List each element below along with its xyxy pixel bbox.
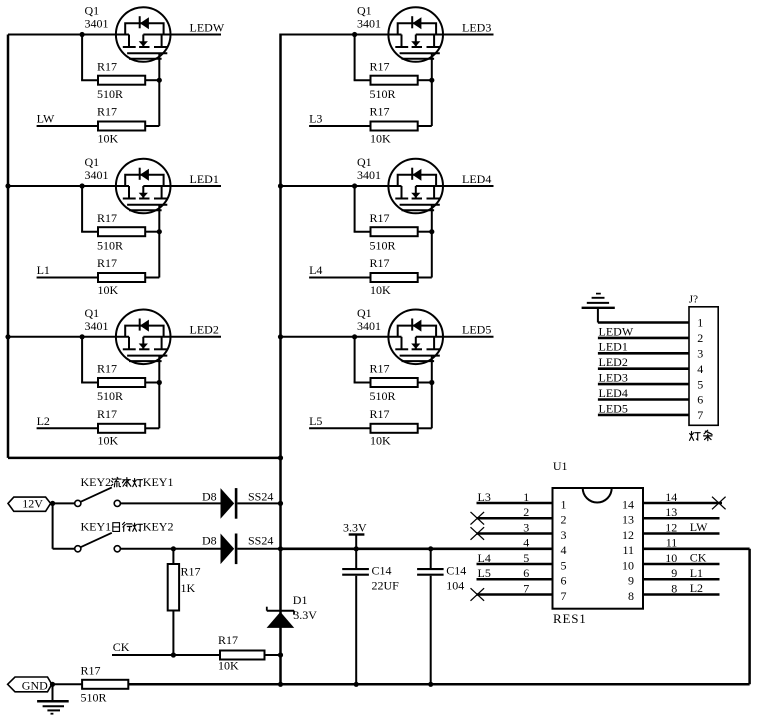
- svg-text:L5: L5: [309, 414, 322, 428]
- resistor R17 510R gate pull-up (LED2 block): [81, 337, 159, 403]
- transistor Q1 3401 P-MOSFET (LED4 block): [357, 155, 443, 213]
- svg-text:3401: 3401: [85, 17, 109, 31]
- svg-text:12: 12: [622, 528, 634, 542]
- svg-text:10: 10: [665, 551, 677, 565]
- net label LW: [37, 112, 55, 126]
- svg-text:13: 13: [665, 505, 677, 519]
- svg-text:LEDW: LEDW: [190, 20, 225, 34]
- wire switched row to U1 pin 4: [281, 547, 477, 550]
- svg-text:D8: D8: [202, 489, 217, 503]
- wire J pin 2: [598, 337, 689, 340]
- transistor Q1 3401 P-MOSFET (LED1 block): [85, 155, 171, 213]
- svg-text:R17: R17: [97, 105, 117, 119]
- svg-text:104: 104: [446, 579, 464, 593]
- svg-text:CK: CK: [113, 640, 130, 654]
- svg-text:6: 6: [697, 393, 703, 407]
- pin number 11 (outside): [666, 536, 678, 550]
- net label L4: [309, 263, 322, 277]
- pin number 8 (outside): [671, 581, 677, 595]
- svg-text:3401: 3401: [357, 168, 381, 182]
- node junction CK / R17 1K: [171, 652, 176, 657]
- svg-text:U1: U1: [553, 459, 568, 473]
- svg-text:6: 6: [561, 574, 567, 588]
- net label L1: [37, 263, 50, 277]
- svg-text:LED3: LED3: [462, 20, 491, 34]
- svg-text:L3: L3: [478, 490, 491, 504]
- switch KEY2 (流水灯 KEY1): [75, 475, 174, 507]
- svg-text:2: 2: [561, 513, 567, 527]
- pin number 4 (outside): [523, 536, 529, 550]
- ground symbol (bottom left): [37, 684, 69, 713]
- wire U1 pin 9 stub: [643, 578, 720, 581]
- svg-text:4: 4: [523, 536, 529, 550]
- pin number 7 (outside): [523, 581, 529, 595]
- wire drain of Q1 to net LED2: [143, 336, 221, 338]
- svg-text:L2: L2: [37, 414, 50, 428]
- pin number 9 (outside): [671, 566, 677, 580]
- svg-text:LED2: LED2: [599, 355, 628, 369]
- transistor Q1 3401 P-MOSFET (LED2 block): [85, 306, 171, 364]
- wire J pin 5: [598, 383, 689, 386]
- svg-text:510R: 510R: [97, 238, 123, 252]
- net label CK: [113, 640, 130, 654]
- svg-text:KEY1: KEY1: [81, 520, 112, 534]
- wire 12V drop to switch KEY1 row: [53, 503, 75, 548]
- wire gate lead of Q1 (LED1 block): [158, 205, 160, 278]
- resistor R17 510R gate pull-up (LED5 block): [354, 337, 432, 403]
- pin number 12 (outside): [665, 520, 677, 534]
- pin number 14 (outside): [665, 490, 677, 504]
- resistor R17 10K gate series (LED2 block): [97, 407, 159, 448]
- svg-text:LEDW: LEDW: [599, 324, 634, 338]
- wire source rail to Q1 (LED3 block): [281, 34, 402, 36]
- resistor R17 510R gate pull-up (LED1 block): [81, 186, 159, 252]
- svg-text:3.3V: 3.3V: [293, 608, 317, 622]
- resistor R17 10K gate series (LED5 block): [370, 407, 432, 448]
- diode D8 SS24 (bottom): [202, 534, 273, 565]
- node junction 3.3V / row wire: [354, 546, 359, 551]
- wire U1 pin 11 to right riser: [643, 547, 750, 550]
- wire U1 pin 4 stub: [476, 547, 553, 550]
- svg-text:10K: 10K: [98, 131, 119, 145]
- wire gate lead of Q1 (LEDW block): [158, 53, 160, 126]
- no-connect X (U1 pin 7): [471, 588, 485, 601]
- svg-text:LED4: LED4: [599, 386, 628, 400]
- wire 12V left rail vertical: [7, 35, 10, 458]
- transistor Q1 3401 P-MOSFET (LEDW block): [85, 4, 171, 62]
- svg-text:L1: L1: [37, 263, 50, 277]
- net label L2 (U1 pin 8): [690, 581, 703, 595]
- svg-text:Q1: Q1: [357, 306, 372, 320]
- svg-text:GND: GND: [22, 678, 48, 692]
- wire CK input: [112, 654, 220, 656]
- resistor R17 1K: [168, 549, 201, 655]
- net label LED5 (J pin 7): [599, 401, 628, 415]
- node junction center rail / CK 10K: [278, 652, 283, 657]
- no-connect X (U1 pin 2): [471, 512, 485, 525]
- net label LED5: [462, 323, 491, 337]
- node junction at 12V port: [50, 501, 55, 506]
- net label LED2: [190, 323, 219, 337]
- wire input LW to R17 10K (LEDW block): [37, 125, 98, 127]
- svg-text:7: 7: [697, 408, 703, 422]
- svg-text:Q1: Q1: [85, 306, 100, 320]
- no-connect X (U1 pin 3): [471, 527, 485, 540]
- svg-text:2: 2: [697, 331, 703, 345]
- wire switch KEY2 to diode D8: [120, 502, 220, 504]
- node junction source/510R (LED1 block): [80, 183, 85, 188]
- wire input L2 to R17 10K (LED2 block): [37, 427, 98, 429]
- wire gate lead of Q1 (LED2 block): [158, 356, 160, 429]
- resistor R17 10K gate series (LED4 block): [370, 256, 432, 297]
- svg-text:9: 9: [671, 566, 677, 580]
- svg-text:Q1: Q1: [357, 4, 372, 18]
- wire U1 pin 7 stub: [477, 593, 553, 596]
- svg-text:L1: L1: [690, 566, 703, 580]
- wire U1 pin 8 stub: [643, 593, 720, 596]
- wire U1 pin 3 stub: [477, 532, 553, 535]
- wire J pin 7: [598, 414, 689, 417]
- wire drain of Q1 to net LEDW: [143, 34, 221, 36]
- svg-text:R17: R17: [97, 407, 117, 421]
- svg-text:LED3: LED3: [599, 371, 628, 385]
- svg-text:10K: 10K: [370, 131, 391, 145]
- svg-text:Q1: Q1: [85, 155, 100, 169]
- svg-text:L3: L3: [309, 112, 322, 126]
- wire U1 pin 13 stub: [643, 517, 720, 520]
- svg-text:3.3V: 3.3V: [343, 521, 367, 535]
- svg-text:10K: 10K: [218, 659, 239, 673]
- wire U1 pin 14 stub: [643, 502, 722, 505]
- svg-text:2: 2: [523, 505, 529, 519]
- svg-text:R17: R17: [370, 256, 390, 270]
- svg-text:R17: R17: [97, 211, 117, 225]
- svg-text:510R: 510R: [370, 389, 396, 403]
- svg-text:6: 6: [523, 566, 529, 580]
- node junction left rail row3: [5, 334, 10, 339]
- pin number 2 (outside): [523, 505, 529, 519]
- svg-text:10K: 10K: [98, 434, 119, 448]
- ground symbol (J connector pin1): [582, 294, 615, 323]
- wire gate lead of Q1 (LED4 block): [431, 205, 433, 278]
- wire input L1 to R17 10K (LED1 block): [37, 277, 98, 279]
- resistor R17 10K gate series (LED1 block): [97, 256, 159, 297]
- node junction 104 cap / ground rail: [428, 682, 433, 687]
- wire U1 pin 5 stub: [477, 563, 553, 566]
- node junction source/510R (LED4 block): [352, 183, 357, 188]
- net label L3 (U1 pin 1): [478, 490, 491, 504]
- pin number 1 (outside): [523, 490, 529, 504]
- svg-text:R17: R17: [370, 211, 390, 225]
- node junction source/510R (LED2 block): [80, 334, 85, 339]
- wire drain of Q1 to net LED3: [416, 34, 494, 36]
- svg-text:10K: 10K: [98, 283, 119, 297]
- svg-text:LED5: LED5: [599, 401, 628, 415]
- svg-text:R17: R17: [370, 59, 390, 73]
- svg-text:10: 10: [622, 558, 634, 572]
- svg-text:D8: D8: [202, 534, 217, 548]
- wire input L5 to R17 10K (LED5 block): [309, 427, 370, 429]
- node junction C22UF / ground rail: [354, 682, 359, 687]
- node junction gate/510R (LED5 block): [429, 380, 434, 385]
- svg-text:R17: R17: [370, 105, 390, 119]
- svg-text:LED2: LED2: [190, 323, 219, 337]
- power port 12V: [8, 497, 51, 512]
- net label LED4: [462, 172, 491, 186]
- resistor R17 10K gate series (LED3 block): [370, 105, 432, 146]
- wire input L3 to R17 10K (LED3 block): [309, 125, 370, 127]
- diode D8 SS24 (top): [202, 488, 273, 519]
- connector J? (灯条) body: [689, 293, 718, 425]
- wire source rail to Q1 (LED2 block): [8, 336, 129, 338]
- wire diode D8 top to center rail: [237, 502, 280, 504]
- svg-text:1: 1: [697, 316, 703, 330]
- svg-text:Q1: Q1: [357, 155, 372, 169]
- resistor R17 510R (ground rail): [81, 663, 129, 704]
- resistor R17 10K (CK series): [218, 633, 281, 673]
- zener diode D1 3.3V: [267, 593, 318, 628]
- wire drain of Q1 to net LED5: [416, 336, 494, 338]
- wire source rail to Q1 (LED5 block): [281, 336, 402, 338]
- svg-text:11: 11: [622, 543, 634, 557]
- label 灯条: [689, 430, 712, 441]
- wire ground rail bottom: [128, 683, 749, 686]
- node junction gate/510R (LED2 block): [157, 380, 162, 385]
- svg-text:510R: 510R: [97, 87, 123, 101]
- resistor R17 510R gate pull-up (LED3 block): [354, 35, 432, 101]
- net label L2: [37, 414, 50, 428]
- net label L5: [309, 414, 322, 428]
- node junction at GND port: [50, 682, 55, 687]
- wire J pin 3: [598, 352, 689, 355]
- wire U1 pin 2 stub: [477, 517, 553, 520]
- svg-text:1: 1: [523, 490, 529, 504]
- svg-text:R17: R17: [97, 256, 117, 270]
- resistor R17 10K gate series (LEDW block): [97, 105, 159, 146]
- svg-text:LED4: LED4: [462, 172, 491, 186]
- net label L5 (U1 pin 6): [478, 566, 491, 580]
- wire U1 pin 12 stub: [643, 532, 720, 535]
- svg-text:L5: L5: [478, 566, 491, 580]
- wire source rail to Q1 (LED4 block): [281, 185, 402, 187]
- svg-text:C14: C14: [446, 564, 466, 578]
- node junction source/510R (LEDW block): [80, 32, 85, 37]
- svg-text:R17: R17: [181, 564, 201, 578]
- net label CK (U1 pin 10): [690, 551, 707, 565]
- svg-text:L2: L2: [690, 581, 703, 595]
- svg-text:3401: 3401: [357, 319, 381, 333]
- wire 12V to switch KEY2: [51, 502, 75, 504]
- no-connect X (U1 pin 14): [712, 497, 726, 510]
- svg-text:4: 4: [561, 543, 567, 557]
- wire source rail to Q1 (LEDW block): [8, 34, 129, 36]
- svg-text:7: 7: [523, 581, 529, 595]
- svg-text:L4: L4: [478, 551, 491, 565]
- wire right riser to U1 pin 11: [748, 549, 751, 685]
- net label LED4 (J pin 6): [599, 386, 628, 400]
- svg-text:5: 5: [523, 551, 529, 565]
- svg-text:8: 8: [671, 581, 677, 595]
- svg-text:3: 3: [523, 520, 529, 534]
- node junction gate/510R (LED1 block): [157, 229, 162, 234]
- node junction source/510R (LED3 block): [352, 32, 357, 37]
- wire U1 pin 6 stub: [477, 578, 553, 581]
- svg-text:LED1: LED1: [599, 340, 628, 354]
- svg-text:C14: C14: [372, 564, 392, 578]
- svg-text:KEY1: KEY1: [143, 475, 174, 489]
- transistor Q1 3401 P-MOSFET (LED5 block): [357, 306, 443, 364]
- net label L3: [309, 112, 322, 126]
- svg-text:L4: L4: [309, 263, 322, 277]
- power port GND: [8, 677, 52, 692]
- svg-text:R17: R17: [97, 59, 117, 73]
- pin number 6 (outside): [523, 566, 529, 580]
- svg-text:14: 14: [665, 490, 677, 504]
- svg-text:3401: 3401: [85, 319, 109, 333]
- net label LED1: [190, 172, 219, 186]
- svg-text:3: 3: [697, 347, 703, 361]
- node junction 104 cap / row wire: [428, 546, 433, 551]
- svg-text:510R: 510R: [370, 87, 396, 101]
- wire switch KEY1 to diode D8 bottom: [120, 548, 220, 550]
- wire drain of Q1 to net LED1: [143, 185, 221, 187]
- node junction center rail / bottom link: [278, 455, 283, 460]
- svg-text:3: 3: [561, 528, 567, 542]
- svg-text:3401: 3401: [357, 17, 381, 31]
- svg-text:R17: R17: [370, 407, 390, 421]
- svg-text:22UF: 22UF: [372, 579, 400, 593]
- svg-text:5: 5: [697, 377, 703, 391]
- wire U1 pin 10 stub: [643, 563, 720, 566]
- svg-text:13: 13: [622, 513, 634, 527]
- node junction center rail row3: [278, 334, 283, 339]
- svg-text:LW: LW: [37, 112, 55, 126]
- svg-text:8: 8: [628, 589, 634, 603]
- svg-text:R17: R17: [81, 663, 101, 677]
- switch KEY1 (日行灯 KEY2): [75, 520, 174, 552]
- wire drain of Q1 to net LED4: [416, 185, 494, 187]
- wire diode D8 bottom to center rail: [237, 548, 280, 550]
- net label LED1 (J pin 3): [599, 340, 628, 354]
- wire gate lead of Q1 (LED5 block): [431, 356, 433, 429]
- wire J pin 4: [598, 367, 689, 370]
- pin number 13 (outside): [665, 505, 677, 519]
- net label LED3: [462, 20, 491, 34]
- net label LEDW: [190, 20, 225, 34]
- resistor R17 510R gate pull-up (LEDW block): [81, 35, 159, 101]
- svg-text:7: 7: [561, 589, 567, 603]
- node junction ground rail / center rail: [278, 682, 283, 687]
- svg-text:5: 5: [561, 558, 567, 572]
- node junction gate/510R (LEDW block): [157, 78, 162, 83]
- svg-text:4: 4: [697, 362, 703, 376]
- svg-text:12V: 12V: [22, 497, 43, 511]
- svg-text:1K: 1K: [181, 581, 196, 595]
- svg-text:510R: 510R: [81, 691, 107, 705]
- pin number 10 (outside): [665, 551, 677, 565]
- wire J pin 6: [598, 398, 689, 401]
- svg-text:9: 9: [628, 574, 634, 588]
- svg-text:SS24: SS24: [248, 534, 273, 548]
- svg-text:R17: R17: [218, 633, 238, 647]
- svg-text:Q1: Q1: [85, 4, 100, 18]
- svg-text:R17: R17: [97, 362, 117, 376]
- wire GND to R17 510R: [53, 683, 83, 685]
- wire switched-12V center rail vertical: [279, 34, 282, 685]
- svg-text:10K: 10K: [370, 434, 391, 448]
- transistor Q1 3401 P-MOSFET (LED3 block): [357, 4, 443, 62]
- op-amp U1 RES1 (IC body): [553, 459, 644, 626]
- wire gate lead of Q1 (LED3 block): [431, 53, 433, 126]
- svg-text:LED5: LED5: [462, 323, 491, 337]
- net label L4 (U1 pin 5): [478, 551, 491, 565]
- svg-text:11: 11: [666, 536, 678, 550]
- node junction center rail / D8 bottom: [278, 546, 283, 551]
- node junction center rail row2: [278, 183, 283, 188]
- svg-text:J?: J?: [689, 293, 698, 305]
- capacitor C14 22UF: [342, 549, 399, 685]
- net label LED2 (J pin 4): [599, 355, 628, 369]
- svg-text:KEY2: KEY2: [143, 520, 174, 534]
- node junction KEY1 wire / R17 1K: [171, 546, 176, 551]
- svg-text:LED1: LED1: [190, 172, 219, 186]
- svg-text:10K: 10K: [370, 283, 391, 297]
- svg-text:SS24: SS24: [248, 489, 273, 503]
- pin number 5 (outside): [523, 551, 529, 565]
- svg-text:LW: LW: [690, 520, 708, 534]
- net label L1 (U1 pin 9): [690, 566, 703, 580]
- svg-text:510R: 510R: [97, 389, 123, 403]
- wire input L4 to R17 10K (LED4 block): [309, 277, 370, 279]
- net label LED3 (J pin 5): [599, 371, 628, 385]
- wire left rail to center rail bottom link: [8, 457, 281, 460]
- wire source rail to Q1 (LED1 block): [8, 185, 129, 187]
- svg-text:R17: R17: [370, 362, 390, 376]
- wire U1 pin 1 stub: [477, 502, 553, 505]
- svg-text:510R: 510R: [370, 238, 396, 252]
- svg-text:3401: 3401: [85, 168, 109, 182]
- node junction gate/510R (LED3 block): [429, 78, 434, 83]
- capacitor C14 104: [417, 549, 466, 685]
- svg-text:D1: D1: [293, 593, 308, 607]
- svg-text:14: 14: [622, 497, 634, 511]
- node junction left rail row2: [5, 183, 10, 188]
- svg-text:1: 1: [561, 497, 567, 511]
- svg-text:KEY2: KEY2: [81, 475, 112, 489]
- svg-text:CK: CK: [690, 551, 707, 565]
- node junction gate/510R (LED4 block): [429, 229, 434, 234]
- power port 3.3V: [343, 521, 367, 549]
- node junction center rail / D8 top: [278, 501, 283, 506]
- svg-text:RES1: RES1: [553, 611, 587, 626]
- resistor R17 510R gate pull-up (LED4 block): [354, 186, 432, 252]
- svg-text:12: 12: [665, 520, 677, 534]
- net label LW (U1 pin 12): [690, 520, 708, 534]
- pin number 3 (outside): [523, 520, 529, 534]
- net label LEDW (J pin 2): [599, 324, 634, 338]
- wire J pin 1: [598, 321, 689, 324]
- node junction source/510R (LED5 block): [352, 334, 357, 339]
